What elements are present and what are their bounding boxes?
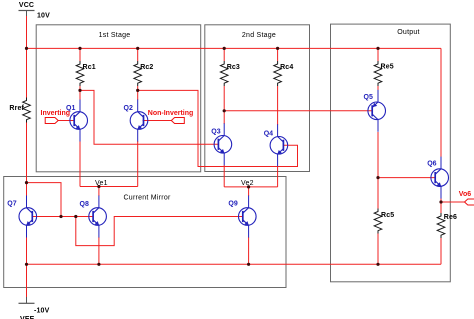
- node Rc5 rail dot: [376, 263, 379, 266]
- wire Rref top: [26, 48, 28, 97]
- wire Q5 node to Q6 base: [378, 177, 435, 179]
- wire main VCC rail: [27, 47, 442, 49]
- port Non-Inverting input: [148, 110, 194, 123]
- transistor Q6: [427, 157, 448, 199]
- wire rail corner down to Q6 collector: [440, 48, 442, 158]
- wire VCC lead down to rail: [26, 16, 28, 48]
- wire Q3 emitter to Ve2: [223, 165, 225, 187]
- node Ve1 dot: [97, 185, 100, 188]
- wire Rref bottom to node: [26, 123, 28, 183]
- wire Ve1 to Q8 collector: [98, 187, 100, 197]
- wire Re5 top: [377, 48, 379, 61]
- 1st Stage box: [36, 25, 201, 172]
- svg-text:Rref: Rref: [9, 105, 24, 112]
- port Vo6 output: [459, 191, 474, 205]
- wire Inverting port to Q1 base: [58, 120, 74, 122]
- wire bottom rail: [27, 263, 442, 265]
- wire Rc3 node to Q5 base: [224, 110, 372, 112]
- port Inverting input: [41, 110, 71, 124]
- wire Vo6 node to output port: [441, 201, 465, 203]
- svg-text:Rc2: Rc2: [140, 64, 153, 71]
- wire Q2 emitter to Ve1: [137, 141, 139, 187]
- wire Q2 base to Non-Inverting port: [143, 120, 172, 122]
- power VCC symbol: [19, 2, 35, 16]
- svg-text:Ve2: Ve2: [241, 180, 254, 187]
- node bottom rail left dot: [25, 263, 28, 266]
- svg-text:Current Mirror: Current Mirror: [124, 195, 171, 202]
- svg-text:Output: Output: [397, 29, 420, 36]
- svg-text:Q3: Q3: [211, 128, 220, 135]
- wire Rc3 top: [223, 48, 225, 61]
- transistor Q9: [228, 196, 256, 238]
- node Q9 emitter rail dot: [247, 263, 250, 266]
- wire Ve2 to Q9 collector: [248, 187, 250, 196]
- wire Rc1 bottom to Q1 collector: [79, 86, 81, 100]
- svg-text:Rc3: Rc3: [227, 64, 240, 71]
- wire Q4 emitter to Ve2: [277, 166, 279, 187]
- wire Rc5 bottom to rail: [377, 234, 379, 265]
- node Vo6 dot: [439, 200, 442, 203]
- node Rref bottom dot: [25, 181, 28, 184]
- node base rail jog dot: [59, 215, 62, 218]
- Current Mirror box: [4, 177, 286, 288]
- wire base rail Q7 to Q8: [32, 216, 93, 218]
- svg-text:Rc1: Rc1: [83, 64, 96, 71]
- wire Rc1 bottom to Q3 base: [80, 90, 218, 144]
- wire Vo6 node to Re6: [440, 202, 442, 213]
- svg-text:Q2: Q2: [124, 105, 133, 112]
- transistor Q3: [211, 123, 231, 165]
- node Rc3 bottom dot: [223, 109, 226, 112]
- wire Rc3 bottom to Q3 collector: [223, 86, 225, 124]
- svg-text:Q4: Q4: [264, 130, 273, 137]
- transistor Q7: [7, 196, 36, 238]
- wire Rc4 top: [277, 48, 279, 61]
- node base rail detour dot: [74, 215, 77, 218]
- wire Q6 emitter to Vo6 node: [440, 198, 442, 202]
- resistor Rc5: [374, 209, 394, 234]
- resistor Rc1: [76, 61, 96, 86]
- svg-text:Vo6: Vo6: [459, 191, 471, 198]
- transistor Q8: [80, 196, 107, 238]
- 2nd Stage box: [205, 25, 310, 172]
- svg-text:1st Stage: 1st Stage: [99, 32, 131, 39]
- transistor Q5: [364, 90, 386, 132]
- svg-text:10V: 10V: [37, 13, 50, 20]
- svg-text:Rc4: Rc4: [280, 64, 293, 71]
- wire Q7 emitter to VEE: [26, 237, 28, 297]
- svg-text:Re6: Re6: [444, 214, 457, 221]
- resistor Rc4: [274, 61, 294, 86]
- wire Q1 emitter to Ve1: [79, 141, 81, 187]
- wire node A jog right: [27, 183, 62, 217]
- svg-text:-10V: -10V: [34, 308, 50, 315]
- wire base rail detour under Q8: [76, 217, 243, 246]
- wire Rc2 bottom to Q4 base: [138, 90, 298, 166]
- svg-text:2nd Stage: 2nd Stage: [242, 32, 276, 39]
- svg-text:Rc5: Rc5: [381, 212, 394, 219]
- svg-text:Q9: Q9: [228, 200, 237, 207]
- resistor Rref: [9, 98, 30, 123]
- wire Rc2 top: [137, 48, 139, 61]
- wire node Ve1 horizontal: [80, 186, 138, 188]
- wire Rc4 bottom to Q4 collector: [277, 86, 279, 125]
- node Rc1 bottom dot: [78, 89, 81, 92]
- Output box: [331, 24, 451, 282]
- svg-text:VCC: VCC: [19, 2, 34, 9]
- wire Rc2 bottom to Q2 collector: [137, 86, 139, 100]
- node Q5 emitter dot: [376, 176, 379, 179]
- resistor Rc2: [134, 61, 154, 86]
- node Rc2 bottom dot: [136, 89, 139, 92]
- resistor Re5: [374, 61, 394, 86]
- wire Rc1 top: [79, 48, 81, 61]
- svg-text:Re5: Re5: [381, 64, 394, 71]
- transistor Q4: [264, 124, 288, 166]
- wire node Ve2 horizontal: [224, 186, 277, 188]
- wire Q5 collector down to Rc5: [377, 132, 379, 209]
- node Q8 emitter rail dot: [97, 263, 100, 266]
- node Rc3 rail dot: [223, 47, 226, 50]
- svg-text:Q6: Q6: [427, 161, 436, 168]
- node Rc2 rail dot: [136, 47, 139, 50]
- wire Q8 emitter to rail: [98, 237, 100, 264]
- wire Q9 emitter to rail: [248, 237, 250, 264]
- resistor Re6: [437, 213, 457, 238]
- wire Re6 bottom to rail: [440, 238, 442, 264]
- node Ve2 dot: [247, 185, 250, 188]
- node Rc1 rail dot: [78, 47, 81, 50]
- node Rc4 rail dot: [276, 47, 279, 50]
- svg-text:Ve1: Ve1: [95, 180, 108, 187]
- svg-text:Q7: Q7: [7, 200, 16, 207]
- svg-text:Inverting: Inverting: [41, 110, 71, 117]
- svg-text:Non-Inverting: Non-Inverting: [148, 110, 194, 117]
- node VCC rail dot: [25, 47, 28, 50]
- transistor Q2: [124, 100, 148, 142]
- node Re5 rail dot: [376, 47, 379, 50]
- transistor Q1: [66, 100, 87, 142]
- svg-text:Q5: Q5: [364, 94, 373, 101]
- svg-text:Q8: Q8: [80, 201, 89, 208]
- wire Re5 bottom to Q5 emitter: [377, 86, 379, 91]
- wire node A to Q7 collector: [26, 183, 28, 196]
- power VEE symbol: [19, 297, 35, 319]
- resistor Rc3: [220, 61, 240, 86]
